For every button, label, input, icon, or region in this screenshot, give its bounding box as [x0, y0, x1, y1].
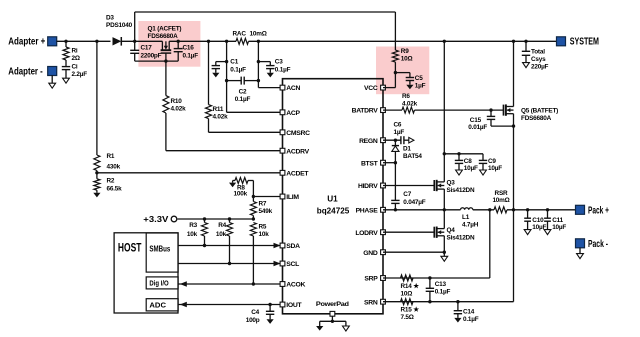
svg-text:0.1µF: 0.1µF [275, 67, 291, 74]
highlight box around Q1 ACFET [138, 21, 200, 67]
wire D3 cathode to Q1 [121, 40, 162, 42]
ground below Ci [63, 78, 70, 83]
pin SRP [381, 276, 386, 281]
svg-text:ADC: ADC [149, 301, 166, 310]
svg-text:1µF: 1µF [394, 129, 405, 136]
wire GND [383, 251, 444, 253]
capacitor C13 [429, 278, 431, 288]
wire Q1 gate bus [135, 60, 179, 62]
svg-text:SYSTEM: SYSTEM [570, 37, 599, 48]
svg-text:0.1µF: 0.1µF [183, 53, 199, 60]
svg-text:R10: R10 [171, 98, 183, 105]
svg-text:10Ω: 10Ω [401, 55, 413, 62]
wire ACDRV [166, 150, 283, 152]
svg-text:10mΩ: 10mΩ [250, 31, 267, 38]
supply +3.3V terminal [171, 216, 177, 222]
capacitor C6 [400, 136, 402, 144]
capacitor C7 [394, 163, 396, 201]
svg-text:C15: C15 [470, 117, 482, 124]
svg-text:Pack -: Pack - [588, 239, 608, 250]
node pack junction [512, 208, 515, 211]
pin VCC [381, 85, 386, 90]
capacitor C15 [490, 110, 492, 116]
capacitor C9 [482, 154, 484, 161]
transistor Q5 BATFET [503, 105, 505, 116]
pin HIDRV [381, 183, 386, 188]
wire LODRV [383, 231, 434, 233]
resistor R10 [165, 61, 167, 96]
svg-text:100p: 100p [246, 317, 260, 324]
ground below R2 [93, 193, 100, 198]
svg-text:R7: R7 [259, 200, 267, 207]
wire R8 to ILIM [252, 181, 254, 197]
node R7 on 3.3V rail [252, 217, 255, 220]
svg-text:10µF: 10µF [488, 165, 502, 172]
svg-text:4.02k: 4.02k [213, 114, 229, 121]
wire adapter rail to D3 [57, 40, 111, 42]
svg-text:Pack +: Pack + [588, 205, 609, 216]
wire CMSRC [209, 131, 283, 133]
svg-text:Ci: Ci [72, 64, 78, 71]
svg-text:R14 ★: R14 ★ [401, 283, 420, 290]
svg-text:R5: R5 [259, 223, 267, 230]
node C1 junction [225, 60, 228, 63]
wire ILIM [253, 196, 282, 198]
svg-text:HOST: HOST [118, 241, 142, 255]
node REGN [394, 139, 397, 142]
svg-text:C8: C8 [464, 158, 472, 165]
wire ACOK [178, 283, 282, 285]
svg-text:ACN: ACN [286, 85, 300, 92]
svg-text:C7: C7 [403, 191, 411, 198]
svg-text:PHASE: PHASE [356, 207, 379, 214]
node C8 C9 stub [443, 152, 446, 155]
svg-text:549k: 549k [259, 208, 273, 215]
capacitor C16 [177, 40, 180, 43]
svg-text:2Ω: 2Ω [72, 55, 80, 62]
wire VCC feed top run [134, 12, 136, 41]
node adapter input [64, 40, 67, 43]
resistor R7 [252, 197, 254, 202]
node R5 to ACOK [252, 282, 255, 285]
svg-text:R6: R6 [402, 93, 410, 100]
node R3 to SDA [203, 244, 206, 247]
pin SCL [280, 261, 285, 266]
node ACP tap [225, 40, 228, 43]
wire BATDRV to Q5 gate [415, 109, 504, 111]
op-amp U1 bq24725 body [283, 79, 384, 314]
pin GND [381, 250, 386, 255]
capacitor Ci [65, 60, 67, 67]
svg-text:0.1µF: 0.1µF [435, 288, 451, 295]
highlight box around R9/C5 VCC filter [376, 47, 429, 95]
wire rail Q1 to RAC [169, 40, 236, 42]
svg-text:ACDET: ACDET [286, 170, 309, 177]
svg-text:Adapter -: Adapter - [8, 66, 43, 77]
SYSTEM terminal [557, 37, 566, 46]
wire SDA [178, 245, 282, 247]
capacitor Total Csys [525, 41, 527, 51]
wire L1 to RSR [473, 209, 494, 211]
wire SRP up to RSR [489, 210, 491, 278]
node D3 cathode / VCC tap [133, 40, 136, 43]
svg-text:10Ω: 10Ω [401, 290, 413, 297]
svg-text:ILIM: ILIM [286, 194, 299, 201]
svg-text:220µF: 220µF [531, 64, 549, 71]
svg-text:Q5 (BATFET): Q5 (BATFET) [521, 108, 558, 115]
wire ACDET [96, 171, 98, 179]
resistor R2 [94, 179, 100, 190]
pin ACDRV [280, 148, 285, 153]
wire SRN up to pack junction [513, 210, 515, 302]
svg-text:C17: C17 [141, 45, 153, 52]
svg-text:2.2µF: 2.2µF [72, 71, 88, 78]
node C11 tap [546, 208, 549, 211]
diode D1 [394, 140, 396, 145]
Dig I/O box [146, 277, 178, 289]
svg-text:0.1µF: 0.1µF [235, 96, 251, 103]
node C7 on PHASE [394, 208, 397, 211]
node C14 tap [456, 300, 459, 303]
capacitor C4 [269, 305, 271, 312]
svg-text:R2: R2 [107, 178, 115, 185]
svg-text:10k: 10k [259, 231, 270, 238]
svg-text:Q4: Q4 [447, 227, 456, 234]
wire SRP [383, 277, 490, 279]
svg-text:100k: 100k [234, 191, 248, 198]
svg-text:IOUT: IOUT [286, 302, 302, 309]
resistor R6 [383, 109, 402, 111]
Pack - terminal [576, 239, 585, 248]
pin ILIM [280, 194, 285, 199]
svg-text:HIDRV: HIDRV [358, 183, 378, 190]
svg-text:10µF: 10µF [552, 224, 566, 231]
svg-text:66.5k: 66.5k [107, 186, 123, 193]
svg-text:Csys: Csys [531, 56, 546, 63]
svg-text:SCL: SCL [286, 261, 299, 268]
svg-text:REGN: REGN [359, 138, 378, 145]
svg-text:Q3: Q3 [447, 180, 456, 187]
wire IOUT [178, 304, 282, 306]
capacitor C5 [395, 72, 410, 74]
node ACN tap [257, 40, 260, 43]
svg-text:10µF: 10µF [464, 165, 478, 172]
capacitor C2 [225, 79, 228, 82]
node ILIM [252, 195, 255, 198]
resistor R1 [96, 41, 98, 155]
transistor Q3 [433, 180, 435, 191]
capacitor C17 [134, 41, 136, 50]
SMBus box [146, 233, 178, 272]
wire R9 to VCC [394, 62, 396, 88]
wire system node down [443, 41, 445, 182]
ground arrow right of C6 [409, 137, 414, 143]
wire BTST [383, 162, 395, 164]
capacitor C1 [216, 61, 227, 63]
pin CMSRC [280, 130, 285, 135]
svg-text:C2: C2 [239, 89, 247, 96]
node Q3 source on PHASE [443, 208, 446, 211]
svg-text:PowerPad: PowerPad [316, 301, 349, 308]
ground below Q4 [443, 252, 445, 256]
capacitor C3 [258, 61, 270, 63]
svg-text:CMSRC: CMSRC [286, 130, 310, 137]
wire PowerPad to ground [331, 316, 333, 321]
pin IOUT [280, 302, 285, 307]
wire REGN [383, 139, 401, 141]
node ACDET [95, 171, 98, 174]
node R4 to SCL [228, 262, 231, 265]
node C13 bottom [428, 300, 431, 303]
svg-text:10mΩ: 10mΩ [492, 197, 509, 204]
svg-text:0.1µF: 0.1µF [230, 67, 246, 74]
HOST box [114, 233, 178, 313]
svg-text:PDS1040: PDS1040 [106, 22, 133, 29]
wire SRN [383, 301, 514, 303]
node C8 tap [457, 152, 460, 155]
resistor RSR [494, 207, 507, 213]
pin ACN [280, 85, 285, 90]
resistor R11 [207, 40, 210, 43]
capacitor C8 [458, 154, 460, 161]
resistor RAC [236, 38, 249, 44]
svg-text:FDS6680A: FDS6680A [148, 33, 179, 40]
svg-text:LODRV: LODRV [355, 230, 378, 237]
svg-text:7.5Ω: 7.5Ω [401, 314, 414, 321]
resistor R4 [228, 217, 231, 220]
Adapter + terminal [48, 37, 57, 46]
svg-text:ACP: ACP [286, 110, 300, 117]
svg-text:FDS6680A: FDS6680A [521, 115, 552, 122]
pin SRN [381, 299, 386, 304]
svg-text:RAC: RAC [233, 31, 247, 38]
svg-text:Sis412DN: Sis412DN [447, 235, 475, 242]
resistor R9 [392, 50, 398, 62]
wire ACP branch [226, 41, 228, 112]
pin LODRV [381, 230, 386, 235]
svg-text:BAT54: BAT54 [403, 153, 422, 160]
Pack + terminal [576, 205, 585, 214]
ground at R8 [232, 181, 234, 183]
svg-text:L1: L1 [462, 214, 470, 221]
wire C8 C9 stub [444, 153, 483, 155]
svg-text:C6: C6 [394, 122, 402, 129]
svg-text:SDA: SDA [286, 243, 300, 250]
transistor Q1 ACFET [161, 41, 163, 50]
diode D3 [113, 37, 122, 45]
ADC box [146, 299, 178, 311]
svg-text:BTST: BTST [361, 160, 379, 167]
svg-text:430k: 430k [107, 163, 121, 170]
svg-text:R1: R1 [107, 153, 115, 160]
svg-text:4.7µH: 4.7µH [462, 222, 479, 229]
pin SDA [280, 243, 285, 248]
node C13 top [428, 276, 431, 279]
wire HIDRV [383, 185, 434, 187]
ground below Adapter - [51, 75, 53, 83]
svg-text:SMBus: SMBus [149, 245, 170, 254]
svg-text:C13: C13 [435, 281, 447, 288]
svg-text:1µF: 1µF [415, 82, 426, 89]
svg-text:U1: U1 [327, 194, 338, 203]
svg-text:R3: R3 [189, 222, 197, 229]
wire PHASE [383, 209, 461, 211]
ground PowerPad left [316, 326, 323, 331]
wire Q5 drain [513, 41, 515, 106]
svg-text:C14: C14 [463, 309, 475, 316]
wire Q4 source to GND [443, 236, 445, 252]
node C3 junction [257, 60, 260, 63]
node Q4 source [443, 251, 446, 254]
node SRP tap [488, 208, 491, 211]
wire SCL [178, 263, 282, 265]
svg-text:Dig I/O: Dig I/O [149, 279, 168, 288]
pin ACOK [280, 282, 285, 287]
node C10 tap [526, 208, 529, 211]
svg-text:C11: C11 [552, 217, 563, 224]
svg-text:2200pF: 2200pF [141, 53, 162, 60]
svg-text:ACOK: ACOK [286, 282, 305, 289]
svg-text:Sis412DN: Sis412DN [447, 187, 475, 194]
svg-text:D3: D3 [106, 15, 114, 22]
node Q5 drain on rail [512, 40, 515, 43]
svg-text:C4: C4 [251, 309, 259, 316]
svg-text:R15 ★: R15 ★ [401, 306, 420, 313]
svg-text:C1: C1 [230, 59, 238, 66]
svg-text:C16: C16 [183, 45, 195, 52]
svg-text:0.1µF: 0.1µF [463, 316, 479, 323]
svg-text:Ri: Ri [72, 48, 78, 55]
capacitor C14 [457, 302, 459, 311]
svg-text:0.047µF: 0.047µF [403, 199, 425, 206]
svg-text:+3.3V: +3.3V [143, 215, 169, 224]
svg-text:10k: 10k [216, 231, 227, 238]
node C5 tap [394, 71, 397, 74]
svg-text:VCC: VCC [364, 85, 378, 92]
svg-text:SRN: SRN [364, 299, 378, 306]
pin ACDET [280, 170, 285, 175]
svg-text:Total: Total [531, 48, 545, 55]
svg-text:R11: R11 [213, 106, 224, 113]
wire rail RAC to SYSTEM [249, 40, 557, 42]
svg-text:SRP: SRP [364, 276, 378, 283]
wire ACN branch [257, 41, 259, 80]
inductor L1 [461, 208, 473, 210]
wire 3.3V rail [178, 218, 254, 220]
capacitor C11 [547, 210, 549, 218]
resistor R8 [233, 180, 235, 182]
node BTST [394, 161, 397, 164]
pin REGN [381, 138, 386, 143]
pin ACP [280, 110, 285, 115]
svg-text:C9: C9 [488, 158, 496, 165]
wire Q4 drain [443, 210, 445, 229]
pin PHASE [381, 207, 386, 212]
svg-text:C5: C5 [415, 75, 423, 82]
svg-text:R4: R4 [218, 222, 226, 229]
svg-text:Q1 (ACFET): Q1 (ACFET) [148, 26, 182, 33]
svg-text:10k: 10k [187, 231, 198, 238]
svg-text:ACDRV: ACDRV [286, 148, 309, 155]
ground below Pack - [579, 248, 581, 254]
svg-text:bq24725: bq24725 [317, 206, 350, 215]
resistor Ri [65, 41, 67, 47]
resistor R3 [203, 217, 206, 220]
wire RSR to Pack+ [507, 209, 576, 211]
resistor R14 [401, 275, 414, 281]
svg-text:D1: D1 [403, 145, 411, 152]
capacitor C10 [527, 210, 529, 218]
ground PowerPad right [343, 326, 350, 331]
svg-text:GND: GND [363, 250, 378, 257]
wire Q5 source to pack node [513, 114, 515, 210]
pin PowerPad [330, 311, 335, 316]
transistor Q4 [433, 227, 435, 238]
svg-text:4.02k: 4.02k [402, 100, 418, 107]
Adapter - terminal [48, 67, 57, 76]
svg-text:C3: C3 [275, 59, 283, 66]
node Csys tap [524, 40, 527, 43]
resistor R5 [250, 223, 256, 237]
node system rail to Q3 [443, 40, 446, 43]
svg-text:C10: C10 [532, 217, 544, 224]
svg-text:4.02k: 4.02k [171, 106, 187, 113]
svg-text:BATDRV: BATDRV [352, 108, 379, 115]
node Q1 gate [164, 59, 167, 62]
svg-text:Adapter +: Adapter + [8, 37, 45, 48]
resistor R15 [401, 299, 414, 305]
svg-text:0.01µF: 0.01µF [468, 124, 487, 131]
pin BTST [381, 160, 386, 165]
pin BATDRV [381, 108, 386, 113]
node C15 tap [489, 108, 492, 111]
node C4 on IOUT [268, 303, 271, 306]
svg-text:R9: R9 [401, 48, 409, 55]
